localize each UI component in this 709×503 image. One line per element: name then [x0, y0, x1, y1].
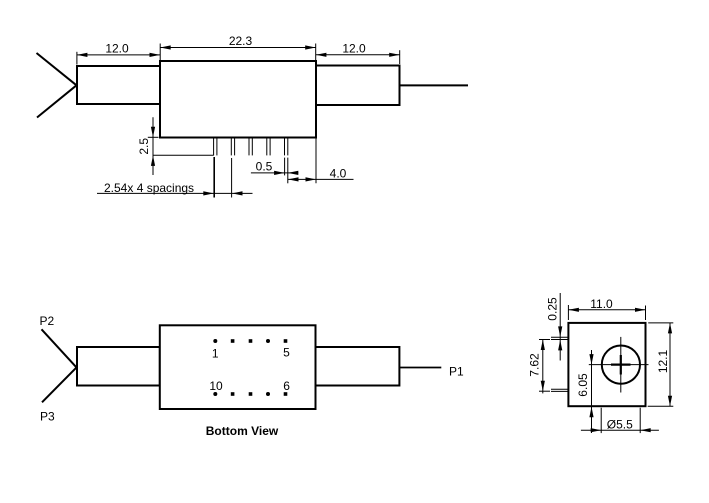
- pin dots bottom row (bottom view): [213, 392, 287, 396]
- pin 4 (top view): [267, 138, 270, 155]
- label P1: [449, 364, 464, 378]
- pin number 5: [283, 346, 290, 360]
- svg-text:1: 1: [212, 347, 219, 361]
- fiber tube circle (end view): [602, 346, 640, 384]
- svg-text:4.0: 4.0: [330, 166, 347, 180]
- pin 1 (top view): [214, 138, 217, 155]
- package square outline (end view): [568, 323, 645, 406]
- caption Bottom View: [206, 424, 279, 438]
- svg-text:0.25: 0.25: [546, 297, 560, 321]
- svg-text:7.62: 7.62: [527, 353, 541, 377]
- svg-text:22.3: 22.3: [229, 34, 253, 48]
- pin row stub lower (end view): [551, 389, 568, 391]
- circle crosshair centerlines (end view): [589, 337, 649, 393]
- pin 3 (top view): [249, 138, 252, 155]
- dimension 11.0 (end view): [568, 297, 645, 320]
- dimension diameter 5.5 (end view): [581, 408, 659, 433]
- svg-text:P3: P3: [40, 410, 55, 424]
- svg-text:12.0: 12.0: [105, 42, 129, 56]
- dimension 2.5 pin length (top view): [137, 117, 214, 175]
- svg-text:12.0: 12.0: [342, 42, 366, 56]
- dimension 2.54 x 4 spacings (top view): [97, 157, 253, 198]
- left fiber tube (bottom view): [77, 347, 160, 386]
- left input fibers V (bottom view): [42, 329, 77, 402]
- label P2: [40, 314, 55, 328]
- svg-text:P2: P2: [40, 314, 55, 328]
- label P3: [40, 410, 55, 424]
- pin number 10: [209, 379, 223, 393]
- svg-text:5: 5: [283, 346, 290, 360]
- dimension 12.1 (end view): [648, 323, 674, 406]
- svg-text:2.54x 4 spacings: 2.54x 4 spacings: [104, 181, 194, 195]
- right output fiber line (top view): [400, 84, 469, 86]
- svg-text:11.0: 11.0: [590, 297, 613, 311]
- svg-text:0.5: 0.5: [256, 159, 273, 173]
- svg-text:Ø5.5: Ø5.5: [607, 417, 633, 431]
- svg-text:2.5: 2.5: [137, 138, 151, 155]
- pin 5 (top view): [285, 138, 288, 155]
- pin number 1: [212, 347, 219, 361]
- dimension 12.0 left (top view): [77, 42, 160, 65]
- pin 2 (top view): [231, 138, 234, 155]
- pin dots top row (bottom view): [213, 339, 287, 343]
- dimension 4.0 (top view): [288, 139, 354, 184]
- right fiber tube (top view): [316, 66, 400, 106]
- svg-text:P1: P1: [449, 364, 464, 378]
- switch body outline (bottom view): [160, 325, 316, 409]
- dimension 6.05 circle center height (end view): [576, 350, 594, 433]
- dimension 7.62 pin row spacing (end view): [527, 340, 550, 394]
- svg-text:6: 6: [283, 379, 290, 393]
- svg-text:Bottom View: Bottom View: [206, 424, 279, 438]
- dimension 12.0 right (top view): [316, 42, 400, 65]
- right output fiber line (bottom view): [399, 367, 441, 369]
- right fiber tube (bottom view): [316, 347, 400, 386]
- dimension 0.25 pin thickness (end view): [546, 293, 563, 361]
- pin number 6: [283, 379, 290, 393]
- left fiber tube (top view): [77, 66, 160, 104]
- left input fibers V (top view): [37, 53, 77, 118]
- dimension 0.5 pin width (top view): [251, 158, 298, 184]
- switch body outline (top view): [160, 61, 316, 138]
- pin row stub upper (end view): [551, 337, 568, 339]
- svg-text:12.1: 12.1: [656, 349, 670, 373]
- dimension 22.3 (top view): [160, 34, 316, 60]
- svg-text:10: 10: [209, 379, 223, 393]
- svg-text:6.05: 6.05: [576, 373, 590, 397]
